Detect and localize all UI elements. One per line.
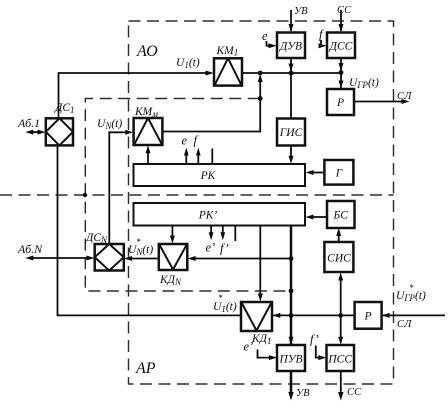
svg-text:ДСС: ДСС [329, 41, 353, 53]
block DSS [327, 33, 355, 59]
wire e arrow up from RK [185, 153, 187, 164]
node dot cross main [289, 313, 294, 318]
svg-text:e’: e’ [206, 241, 216, 255]
wire e' arrow down from RK' [210, 226, 212, 234]
block RK [134, 164, 306, 186]
svg-text:БС: БС [332, 210, 348, 222]
svg-text:РК’: РК’ [198, 210, 218, 222]
svg-text:Аб.N: Аб.N [17, 242, 43, 256]
wire U*1(t) from KD1 left to DS1 bottom [58, 146, 242, 316]
svg-text:ДУВ: ДУВ [279, 41, 302, 53]
svg-text:УВ: УВ [294, 6, 308, 17]
block BS [327, 201, 355, 228]
block R top [327, 89, 354, 115]
wire KMm output right then up to node A [162, 77, 260, 132]
svg-text:U1(t): U1(t) [213, 301, 237, 314]
wire GIS down into RK [290, 146, 292, 158]
wire e hook into DUV [267, 41, 271, 46]
wire R to SL output [355, 101, 403, 103]
arrow down into node C [339, 63, 344, 71]
wire SIS-PSS vertical through R output [340, 277, 342, 340]
node dot KDm feed [289, 256, 294, 261]
arrow up into node A [258, 74, 263, 82]
svg-text:ПСС: ПСС [327, 354, 352, 366]
wire DSm top up and right into KMm (UN(t)) [109, 132, 127, 244]
wire R-bottom output left to KD1 right [273, 314, 355, 316]
wire tick below RK' [234, 226, 236, 241]
decoder KD1 [241, 302, 272, 331]
block PSS [327, 345, 355, 371]
wire SS input top [340, 10, 342, 31]
svg-text:КМ1: КМ1 [216, 45, 239, 58]
wire SIS up into BS bottom [338, 234, 340, 243]
block DUV [277, 33, 305, 59]
wire U*GR(t)/SL input into R-bottom [382, 314, 445, 316]
wire e' hook into PUV [258, 350, 272, 358]
wire f arrow up from RK [197, 153, 199, 164]
dashed jog box left (AP inner boundary) [85, 99, 291, 292]
wire Ab.1 line into DS1 left [31, 131, 40, 133]
svg-text:Г: Г [335, 168, 343, 180]
svg-text:АО: АО [136, 43, 158, 60]
node B junction DUV column [289, 71, 294, 76]
node dot R-bottom branch [338, 313, 343, 318]
node C junction DSS column [339, 70, 344, 75]
arrow into DSS top [339, 24, 344, 32]
svg-text:СЛ: СЛ [397, 91, 412, 102]
wire RK up into KMm bottom [147, 151, 149, 164]
svg-text:СИС: СИС [327, 253, 351, 265]
arrow into DUV top [289, 24, 294, 32]
svg-text:АР: АР [135, 360, 156, 377]
wire UV input top [290, 10, 292, 31]
svg-text:U1(t): U1(t) [176, 57, 200, 70]
wire RK' down into KD1 top [259, 226, 261, 296]
wire BS into RK' right [312, 216, 327, 218]
wire main vertical RK' to PUV [290, 226, 293, 345]
decoder KDm [159, 244, 188, 270]
node dot dashed bottom jog meets PUV vertical [289, 289, 294, 294]
svg-text:Р: Р [336, 97, 344, 109]
diffsystem DSm [95, 244, 124, 271]
node dot dashed top edge meets KMm output vertical [258, 96, 263, 101]
svg-text:e: e [262, 29, 268, 43]
wire f' hook into PSS [316, 346, 321, 358]
block PUV [277, 345, 305, 371]
svg-text:Р: Р [363, 311, 371, 323]
arrow down into R top [339, 81, 344, 89]
wire U*N(t) feed from main vertical into KDm right [193, 258, 291, 260]
wire RK' down into KDm top [171, 226, 173, 238]
wire G into RK right [312, 172, 325, 174]
block RK' [134, 203, 306, 226]
arrow down into node B [289, 64, 294, 72]
wire f hook into DSS [320, 40, 323, 46]
wire DUV down through node B to GIS [290, 58, 292, 119]
svg-text:*: * [136, 237, 141, 247]
wire tick above RK [211, 149, 213, 165]
wire f' arrow down from RK' [222, 226, 224, 234]
block G [324, 160, 353, 185]
dashed divider line y=195 [0, 194, 394, 196]
wire DSS down to node C and into R [340, 58, 342, 88]
wire PSS down SS output [340, 371, 342, 394]
block R bottom [355, 302, 382, 329]
dashed frame AO/AP outer box [129, 21, 394, 384]
block GIS [277, 119, 305, 146]
svg-text:УВ: УВ [296, 388, 310, 399]
wire highway y=73 KM1 to DSS column [242, 72, 341, 74]
svg-text:Аб.1: Аб.1 [17, 116, 40, 130]
arrow into KM1 left [206, 71, 214, 76]
commutator KM1 [214, 58, 242, 85]
wire Ab.N line into DSm left [31, 257, 90, 259]
svg-text:f’: f’ [220, 242, 229, 256]
svg-text:ПУВ: ПУВ [278, 354, 302, 366]
wire KDm output into DSm right [130, 258, 159, 260]
diffsystem DS1 [46, 118, 73, 145]
svg-text:*: * [409, 283, 414, 293]
svg-text:e: e [182, 134, 188, 148]
node dot on dashed divider [83, 193, 87, 197]
wire U1(t) from DS1 up to KM1 [59, 73, 208, 119]
svg-text:СС: СС [337, 5, 352, 16]
wire PUV down UV output [290, 371, 293, 394]
node A junction KMm merge [258, 71, 263, 76]
svg-text:РК: РК [200, 170, 217, 182]
svg-text:СС: СС [347, 387, 362, 398]
svg-text:ГИС: ГИС [279, 127, 303, 139]
svg-text:f’: f’ [310, 333, 319, 347]
svg-text:e’: e’ [244, 340, 254, 354]
block SIS [324, 242, 353, 272]
svg-text:СЛ: СЛ [397, 319, 412, 330]
commutator KMm [134, 118, 163, 145]
